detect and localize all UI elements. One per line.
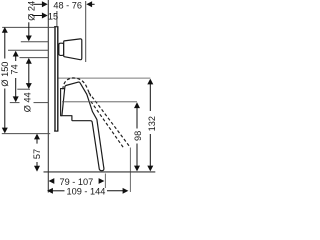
dimension 109 - 144 xyxy=(47,186,128,196)
extension line lever tip row1 xyxy=(104,174,106,189)
dimension diameter 24 arrow upper xyxy=(26,22,32,41)
svg-text:Ø 44: Ø 44 xyxy=(23,92,33,112)
extension line lever max height xyxy=(58,77,151,79)
lever boss xyxy=(61,89,65,116)
lever raised position dashed outer edge xyxy=(89,93,129,147)
extension line plate front xyxy=(56,11,58,26)
dimension 57 xyxy=(32,134,42,172)
extension line knob bottom xyxy=(20,57,49,59)
extension line knob axis xyxy=(8,49,48,51)
dimension 79 - 107 xyxy=(49,177,105,187)
bottom reference line xyxy=(44,171,156,173)
extension line lever axis left xyxy=(10,102,20,104)
extension line plate bottom xyxy=(2,133,50,135)
svg-text:74: 74 xyxy=(10,64,20,74)
wall line xyxy=(47,0,49,193)
svg-text:132: 132 xyxy=(147,116,157,131)
extension line lever axis left part2 xyxy=(34,102,49,104)
dimension 74 xyxy=(10,51,20,102)
svg-text:109 - 144: 109 - 144 xyxy=(66,186,105,196)
lever raised position dashed inner edge xyxy=(91,101,124,148)
extension line dashed tip row2 xyxy=(129,148,131,193)
lever handle xyxy=(62,82,104,171)
lever raised position dashed head arc xyxy=(63,78,91,96)
svg-text:98: 98 xyxy=(133,131,143,141)
lever axis line xyxy=(62,101,137,103)
dimension 15 xyxy=(32,12,58,22)
svg-text:15: 15 xyxy=(48,12,58,22)
svg-text:Ø 150: Ø 150 xyxy=(0,62,10,87)
dimension diameter 150 xyxy=(0,27,10,133)
extension line plate top xyxy=(2,26,54,28)
dimension 132 xyxy=(147,79,157,172)
svg-text:Ø 24: Ø 24 xyxy=(26,1,36,21)
svg-text:48 - 76: 48 - 76 xyxy=(53,0,82,10)
escutcheon plate xyxy=(54,27,58,131)
knob stem xyxy=(59,43,64,55)
extension line sleeve bottom xyxy=(17,88,30,90)
svg-text:57: 57 xyxy=(32,149,42,159)
extension line knob top xyxy=(21,41,49,43)
knob body xyxy=(64,39,82,60)
dimension 48 - 76 xyxy=(33,0,94,10)
dimension diameter 44 xyxy=(23,58,33,112)
dimension 98 xyxy=(133,102,143,171)
extension line knob front xyxy=(85,1,87,62)
svg-text:79 - 107: 79 - 107 xyxy=(60,177,94,187)
